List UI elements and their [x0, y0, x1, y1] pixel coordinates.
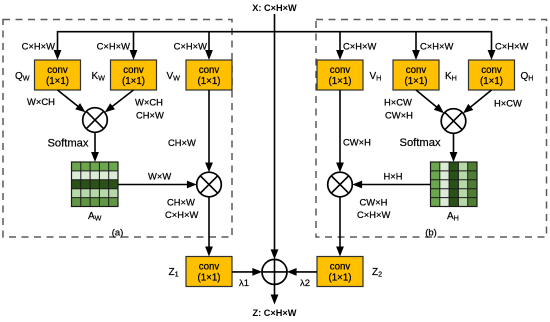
- conv box Qw: [35, 60, 81, 90]
- svg-text:X: C×H×W: X: C×H×W: [252, 3, 297, 13]
- svg-text:VH: VH: [370, 71, 382, 83]
- svg-text:H×CW: H×CW: [494, 98, 522, 109]
- multiplier C1: [83, 108, 108, 133]
- svg-text:W×W: W×W: [148, 171, 171, 182]
- svg-text:conv: conv: [406, 65, 427, 76]
- wire: stub into conv Kw: [130, 31, 138, 60]
- conv box QH: [469, 60, 515, 90]
- label Softmax (b): [400, 137, 441, 149]
- svg-text:(1×1): (1×1): [329, 76, 352, 87]
- wire: C2 down to conv Z1: [205, 197, 213, 257]
- dashed box (b): [316, 20, 547, 238]
- wire: stub into conv QH: [488, 31, 496, 60]
- conv box VH: [317, 60, 363, 90]
- label H×CW under KH: [384, 97, 412, 108]
- svg-text:KH: KH: [445, 71, 457, 83]
- node Z output label: [253, 308, 297, 318]
- label Aw: [88, 211, 102, 223]
- dashed box (a): [3, 20, 232, 238]
- conv box Z1: [186, 257, 232, 287]
- svg-text:C×H×W: C×H×W: [97, 41, 130, 52]
- svg-text:λ2: λ2: [300, 278, 310, 289]
- wire: C4 down to conv Z2: [336, 197, 344, 257]
- wire: horizontal distribution bus: [58, 31, 492, 33]
- svg-text:(1×1): (1×1): [480, 76, 503, 87]
- label H×H: [384, 171, 403, 182]
- attention map AH grid: [431, 162, 478, 207]
- svg-text:C×H×W: C×H×W: [343, 41, 376, 52]
- adder C5: [262, 259, 287, 284]
- conv box Z2: [317, 257, 363, 287]
- wire: stub into conv Vw: [205, 31, 213, 60]
- svg-text:CH×W: CH×W: [168, 137, 196, 148]
- label QH: [521, 71, 534, 83]
- svg-text:(1×1): (1×1): [329, 273, 352, 284]
- svg-text:C×H×W: C×H×W: [165, 209, 198, 220]
- wire: Qw to multiplier C1: [58, 90, 86, 112]
- svg-text:conv: conv: [330, 261, 351, 272]
- label λ1: [239, 278, 249, 289]
- svg-text:conv: conv: [199, 261, 220, 272]
- wire: stub into conv VH: [336, 31, 344, 60]
- wire: stub into conv Qw: [54, 31, 62, 60]
- label λ2: [300, 278, 310, 289]
- svg-text:H×H: H×H: [384, 171, 403, 182]
- svg-text:Softmax: Softmax: [400, 137, 441, 149]
- svg-text:W×CH: W×CH: [135, 97, 163, 108]
- label C×H×W above Qw: [22, 41, 55, 52]
- label C×H×W under C4: [357, 209, 390, 220]
- svg-text:Softmax: Softmax: [47, 138, 88, 150]
- svg-text:(1×1): (1×1): [46, 76, 69, 87]
- label W×CH under Qw: [27, 96, 55, 107]
- wire: stub into conv KH: [412, 31, 420, 60]
- wire: adder to output Z: [271, 284, 279, 304]
- label Kw: [92, 71, 106, 83]
- label (b): [425, 228, 437, 239]
- label W×W: [148, 171, 171, 182]
- label C×H×W under C2: [165, 209, 198, 220]
- svg-text:CW×H: CW×H: [343, 137, 371, 148]
- label CH×W under C2: [167, 197, 195, 208]
- label Softmax (a): [47, 138, 88, 150]
- svg-text:conv: conv: [481, 65, 502, 76]
- svg-text:(1×1): (1×1): [122, 76, 145, 87]
- svg-text:conv: conv: [330, 65, 351, 76]
- wire: Kw to multiplier C1: [105, 90, 134, 112]
- label (a): [112, 228, 124, 239]
- svg-text:KW: KW: [92, 71, 106, 83]
- label VH: [370, 71, 382, 83]
- multiplier C2: [197, 172, 222, 197]
- label CH×W right of C1: [136, 110, 164, 121]
- wire: Aw grid to multiplier C2: [118, 181, 197, 189]
- label Qw: [15, 71, 30, 83]
- svg-text:C×H×W: C×H×W: [495, 41, 528, 52]
- svg-text:C×H×W: C×H×W: [420, 41, 453, 52]
- label CW×H on VH line: [343, 137, 371, 148]
- svg-text:(1×1): (1×1): [198, 76, 221, 87]
- conv box KH: [393, 60, 439, 90]
- svg-text:CH×W: CH×W: [167, 197, 195, 208]
- wire: Vw down to multiplier C2: [205, 90, 213, 172]
- conv box Kw: [111, 60, 157, 90]
- label C×H×W above Vw: [174, 41, 207, 52]
- wire: C3 to AH grid: [450, 133, 458, 162]
- svg-text:Z: C×H×W: Z: C×H×W: [253, 308, 297, 318]
- wire: C1 to Aw grid: [91, 132, 99, 162]
- label C×H×W above KH: [420, 41, 453, 52]
- svg-text:C×H×W: C×H×W: [22, 41, 55, 52]
- label Z1: [169, 267, 179, 279]
- svg-text:conv: conv: [47, 65, 68, 76]
- label CW×H under C4: [360, 197, 388, 208]
- svg-text:Z2: Z2: [372, 267, 382, 279]
- conv box Vw: [186, 60, 232, 90]
- wire: main vertical from X to adder: [271, 14, 279, 259]
- node X input label: [252, 3, 297, 13]
- svg-text:conv: conv: [199, 65, 220, 76]
- label H×CW under QH: [494, 98, 522, 109]
- label CW×H under KH: [385, 110, 413, 121]
- svg-text:H×CW: H×CW: [384, 97, 412, 108]
- label C×H×W above QH: [495, 41, 528, 52]
- svg-text:QW: QW: [15, 71, 30, 83]
- label C×H×W above Kw: [97, 41, 130, 52]
- svg-text:QH: QH: [521, 71, 534, 83]
- svg-text:(b): (b): [425, 228, 437, 239]
- label Z2: [372, 267, 382, 279]
- label C×H×W above VH: [343, 41, 376, 52]
- label AH: [447, 211, 459, 223]
- wire: KH to multiplier C3: [416, 90, 444, 113]
- svg-text:W×CH: W×CH: [27, 96, 55, 107]
- svg-text:C×H×W: C×H×W: [357, 209, 390, 220]
- attention map Aw grid: [72, 162, 119, 207]
- svg-text:conv: conv: [123, 65, 144, 76]
- svg-text:Z1: Z1: [169, 267, 179, 279]
- svg-text:λ1: λ1: [239, 278, 249, 289]
- wire: Z1 to adder: [232, 268, 262, 276]
- label W×CH right of C1: [135, 97, 163, 108]
- wire: AH grid to multiplier C4: [352, 181, 430, 189]
- svg-text:AH: AH: [447, 211, 459, 223]
- svg-text:(1×1): (1×1): [198, 273, 221, 284]
- svg-text:CW×H: CW×H: [360, 197, 388, 208]
- svg-text:VW: VW: [167, 71, 181, 83]
- svg-text:AW: AW: [88, 211, 102, 223]
- label KH: [445, 71, 457, 83]
- svg-text:(a): (a): [112, 228, 124, 239]
- label Vw: [167, 71, 181, 83]
- svg-text:(1×1): (1×1): [405, 76, 428, 87]
- wire: VH down to multiplier C4: [336, 90, 344, 172]
- label CH×W on Vw line: [168, 137, 196, 148]
- svg-text:CH×W: CH×W: [136, 110, 164, 121]
- svg-text:CW×H: CW×H: [385, 110, 413, 121]
- wire: QH to multiplier C3: [463, 90, 492, 113]
- multiplier C3: [441, 109, 466, 134]
- wire: Z2 to adder: [287, 268, 317, 276]
- multiplier C4: [328, 172, 353, 197]
- svg-text:C×H×W: C×H×W: [174, 41, 207, 52]
